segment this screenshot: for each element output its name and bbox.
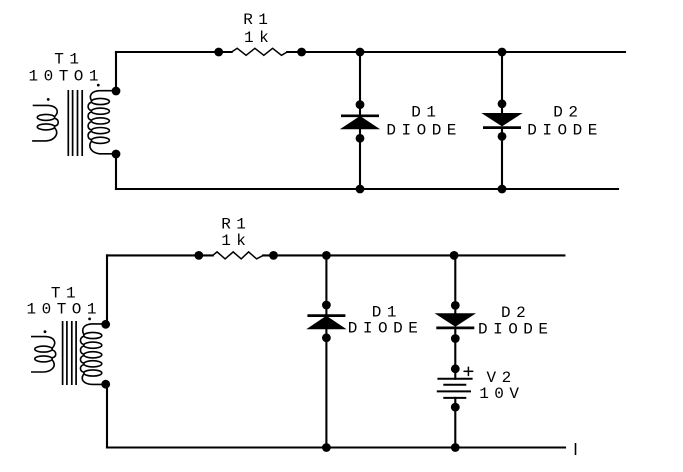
- svg-text:DIODE: DIODE: [527, 122, 603, 140]
- svg-text:DIODE: DIODE: [478, 321, 554, 339]
- svg-text:DIODE: DIODE: [386, 122, 462, 140]
- svg-text:1k: 1k: [244, 29, 274, 47]
- svg-text:D2: D2: [501, 304, 531, 322]
- svg-text:1k: 1k: [221, 232, 251, 250]
- svg-text:R1: R1: [243, 11, 273, 29]
- svg-text:D2: D2: [553, 104, 583, 122]
- svg-text:T1: T1: [54, 51, 84, 69]
- svg-text:10TO1: 10TO1: [29, 68, 105, 86]
- svg-text:DIODE: DIODE: [348, 320, 424, 338]
- svg-text:10TO1: 10TO1: [27, 300, 103, 318]
- svg-text:10V: 10V: [479, 385, 524, 403]
- svg-text:D1: D1: [411, 104, 441, 122]
- svg-text:R1: R1: [221, 216, 251, 234]
